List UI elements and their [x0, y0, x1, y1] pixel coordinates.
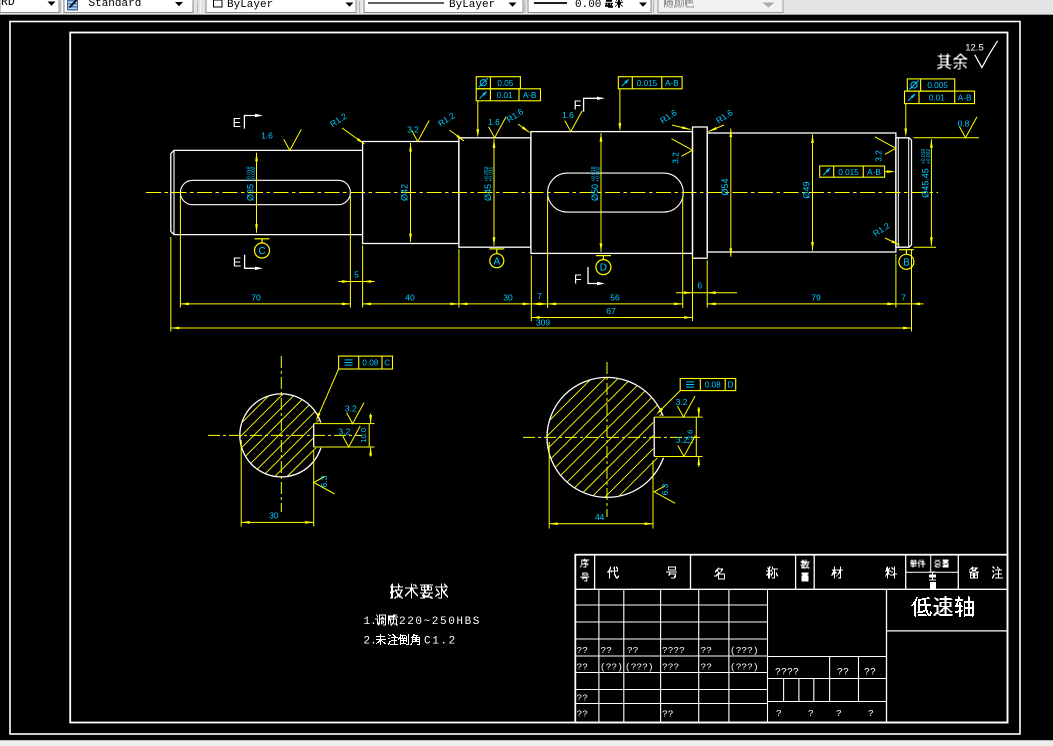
dim extension line	[895, 254, 897, 308]
dim 7 keyway offset	[531, 303, 547, 305]
dim extension line	[170, 237, 172, 332]
svg-text:0.01: 0.01	[929, 94, 945, 103]
svg-text:3.2: 3.2	[676, 397, 688, 407]
svg-text:56: 56	[610, 293, 620, 303]
svg-text:3.2: 3.2	[874, 150, 884, 162]
tolerance frame runout 0.01 A-B right	[905, 91, 975, 104]
title block border	[575, 555, 1007, 723]
svg-text:D: D	[728, 381, 734, 390]
svg-text:+0.002: +0.002	[926, 149, 932, 165]
surface 3.2 on collar face	[672, 139, 693, 157]
dim Ø50	[600, 133, 602, 252]
shaft section S5	[693, 127, 708, 258]
svg-text:0.8: 0.8	[958, 118, 970, 128]
title block revision grid	[575, 604, 767, 606]
svg-text:??: ??	[577, 662, 588, 673]
svg-text:B: B	[903, 257, 910, 268]
toolbar separator	[359, 1, 361, 13]
section F-F surface 3.2 bottom	[678, 436, 696, 457]
section F-F dim 44	[549, 523, 653, 525]
svg-text:C: C	[384, 359, 390, 368]
svg-text:+0.011: +0.011	[489, 166, 495, 181]
status strip	[0, 740, 1053, 746]
dim 309 overall	[171, 327, 912, 329]
shaft section S4	[531, 132, 693, 254]
dim 70	[180, 303, 350, 305]
svg-text:67: 67	[606, 306, 616, 316]
title block name divider	[887, 630, 1008, 632]
section E-E keyway chord	[313, 424, 315, 447]
dim 6 collar	[676, 292, 737, 294]
section E-E surface 6.3	[314, 477, 335, 495]
svg-text:????: ????	[662, 645, 685, 656]
svg-text:6.3: 6.3	[319, 475, 329, 487]
datum B	[899, 249, 914, 251]
svg-text:??: ??	[577, 645, 588, 656]
svg-text:3.2: 3.2	[345, 404, 357, 414]
section E-E circle with hatch	[242, 396, 269, 423]
dim extension line	[911, 249, 913, 331]
toolbar separator	[197, 1, 199, 13]
svg-text:??: ??	[577, 693, 588, 704]
svg-text:A-B: A-B	[867, 168, 881, 177]
toolbar combo layer control	[0, 0, 59, 13]
section E-E dim 30	[241, 521, 314, 523]
svg-text:0.08: 0.08	[705, 381, 721, 390]
dim extension line	[179, 196, 181, 308]
title block header text	[580, 559, 589, 568]
part name 低速轴	[911, 597, 932, 617]
dim extension line	[362, 246, 364, 308]
svg-text:6: 6	[697, 281, 702, 291]
section F-F centerline vertical	[606, 362, 608, 517]
svg-text:A-B: A-B	[523, 91, 537, 100]
shaft section S1 Ø35	[171, 150, 363, 234]
dim 30	[459, 303, 531, 305]
svg-text:??: ??	[837, 668, 849, 679]
dim extension line	[530, 255, 532, 321]
datum A	[489, 248, 504, 250]
section F-F circle with hatch	[549, 380, 590, 421]
svg-text:C: C	[258, 246, 265, 257]
svg-text:(???): (???)	[625, 662, 654, 673]
svg-text:6.3: 6.3	[660, 483, 670, 495]
dim extension line	[349, 196, 351, 308]
shaft centerline	[146, 192, 938, 194]
tolerance frame symmetry 0.08 C	[339, 356, 393, 369]
svg-text:D: D	[600, 263, 607, 274]
svg-text:3.2: 3.2	[407, 125, 419, 135]
svg-text:Ø45: Ø45	[483, 184, 493, 201]
section F-F surface 3.2 top	[678, 396, 696, 417]
svg-text:40: 40	[405, 293, 415, 303]
svg-text:7: 7	[537, 291, 542, 301]
svg-text:???: ???	[662, 662, 679, 673]
svg-text:RD: RD	[1, 0, 15, 9]
toolbar combo text style	[64, 0, 193, 13]
svg-text:?: ?	[868, 708, 874, 719]
section F-F keyway outline	[654, 416, 696, 418]
svg-text:ByLayer: ByLayer	[227, 0, 273, 11]
dim extension line	[547, 196, 549, 308]
dim Ø35	[256, 153, 258, 233]
svg-text:??: ??	[701, 645, 712, 656]
dim 5	[338, 281, 374, 283]
section E-E key width dim	[370, 414, 372, 424]
svg-text:0.08: 0.08	[362, 359, 378, 368]
svg-text:309: 309	[536, 318, 550, 328]
svg-text:F: F	[574, 273, 582, 287]
svg-text:Ø42: Ø42	[400, 184, 410, 201]
svg-text:12.5: 12.5	[965, 43, 984, 54]
toolbar combo lineweight control	[528, 0, 651, 13]
svg-text:3.2: 3.2	[671, 152, 681, 164]
svg-text:0.01: 0.01	[497, 91, 513, 100]
svg-text:70: 70	[251, 293, 261, 303]
svg-text:Ø49: Ø49	[802, 181, 812, 198]
svg-text:0.015: 0.015	[838, 168, 859, 177]
svg-text:Standard: Standard	[89, 0, 142, 10]
svg-text:10.0: 10.0	[359, 428, 368, 443]
svg-text:30: 30	[503, 293, 513, 303]
dim Ø45	[493, 139, 495, 245]
svg-text:(???): (???)	[730, 662, 759, 673]
svg-text:0.015: 0.015	[637, 79, 658, 88]
toolbar combo linetype control	[364, 0, 523, 13]
svg-text:44: 44	[595, 512, 605, 522]
tolerance frame symmetry 0.08 D	[680, 379, 736, 391]
svg-text:??: ??	[627, 645, 638, 656]
dim Ø42	[410, 143, 412, 242]
svg-text:0.00: 0.00	[575, 0, 601, 11]
svg-text:?: ?	[836, 708, 842, 719]
section F-F keyway chord	[653, 417, 655, 456]
shaft section S6	[707, 133, 896, 252]
svg-text:+0.002: +0.002	[251, 166, 257, 182]
svg-text:??: ??	[864, 668, 876, 679]
shaft section S7 right end Ø45	[896, 138, 912, 247]
svg-text:220~250HBS: 220~250HBS	[399, 616, 481, 628]
section E-E centerline horizontal	[208, 434, 362, 436]
surface 0.8 right end	[960, 117, 978, 138]
svg-text:(??): (??)	[600, 662, 623, 673]
svg-text:A-B: A-B	[958, 94, 972, 103]
surface 3.2 on S7 face	[875, 137, 896, 155]
svg-text:F: F	[574, 99, 582, 113]
svg-text:1.6: 1.6	[261, 130, 273, 140]
svg-text:?: ?	[808, 708, 814, 719]
dim extension line	[682, 196, 684, 308]
svg-text:79: 79	[811, 293, 821, 303]
svg-text:C1.2: C1.2	[424, 636, 457, 648]
tolerance frame runout 0.015 A-B top	[618, 77, 682, 89]
section E-E ext lines	[240, 440, 242, 527]
svg-text:??: ??	[662, 709, 673, 720]
tolerance frame runout 0.01 A-B left	[476, 89, 540, 101]
svg-text:2.: 2.	[364, 636, 377, 648]
keyway slot S4	[548, 173, 684, 212]
svg-text:????: ????	[775, 668, 799, 679]
toolbar combo plot style (disabled)	[658, 0, 783, 13]
toolbar face	[0, 0, 1053, 16]
tolerance frame cylindricity 0.05	[476, 77, 520, 89]
section F-F centerline horizontal	[523, 436, 700, 438]
title block header grid	[575, 588, 1007, 590]
svg-text:Ø45.45: Ø45.45	[920, 168, 930, 198]
keyway slot S1	[180, 180, 350, 204]
section E-E keyway outline	[314, 423, 370, 425]
surface 1.6 on S1	[284, 129, 302, 150]
surface 3.2 on S2	[412, 121, 430, 142]
svg-text:1.6: 1.6	[562, 110, 574, 120]
datum C	[255, 238, 270, 240]
tech requirements title	[390, 584, 448, 599]
svg-text:??: ??	[701, 662, 712, 673]
svg-text:0.005: 0.005	[927, 81, 948, 90]
svg-text:ByLayer: ByLayer	[449, 0, 495, 11]
svg-text:Ø54: Ø54	[720, 178, 730, 195]
svg-text:Ø50: Ø50	[590, 184, 600, 201]
shaft section S2	[363, 142, 459, 244]
svg-text:5: 5	[354, 270, 359, 280]
svg-text:+0.002: +0.002	[596, 166, 602, 182]
dim 79	[707, 303, 896, 305]
section F-F key width dim	[698, 407, 700, 417]
toolbar separator	[653, 1, 655, 13]
general roughness note 12.5	[938, 54, 968, 70]
datum D	[596, 255, 611, 257]
svg-text:7: 7	[901, 293, 906, 303]
toolbar separator	[524, 1, 526, 13]
svg-text:?: ?	[776, 708, 782, 719]
svg-text:3.2: 3.2	[676, 435, 688, 445]
svg-text:??: ??	[577, 709, 588, 720]
svg-text:E: E	[233, 256, 241, 270]
dim 40	[363, 303, 459, 305]
surface 1.6 on S4	[565, 111, 583, 132]
svg-text:1.6: 1.6	[488, 117, 500, 127]
svg-text:??: ??	[601, 645, 612, 656]
dim 7 right end	[884, 303, 924, 305]
svg-text:1.: 1.	[364, 616, 377, 628]
section F-F ext lines	[548, 442, 550, 529]
title block middle grid	[768, 656, 887, 658]
section F-F surface 6.3	[654, 486, 675, 504]
tolerance frame cylindricity 0.005	[907, 79, 954, 91]
dim Ø49	[812, 135, 814, 251]
svg-text:0.05: 0.05	[497, 79, 513, 88]
svg-text:E: E	[233, 116, 241, 130]
svg-text:30: 30	[269, 511, 279, 521]
surface 1.6 on S3	[489, 117, 507, 138]
dim extension line	[692, 256, 694, 321]
dim 67	[531, 317, 692, 319]
svg-text:Ø35: Ø35	[246, 184, 256, 201]
dim extension line	[706, 260, 708, 307]
dim extension line	[458, 249, 460, 307]
svg-text:A: A	[493, 256, 500, 267]
shaft section S3	[459, 138, 531, 247]
dim Ø54	[730, 129, 732, 257]
section E-E centerline vertical	[280, 356, 282, 512]
svg-text:(???): (???)	[730, 645, 759, 656]
toolbar combo color control	[206, 0, 356, 13]
dim 56	[548, 303, 683, 305]
section E-E surface 3.2 top	[347, 403, 365, 424]
section E-E surface 3.2 bottom	[343, 426, 361, 447]
svg-text:3.2: 3.2	[338, 427, 350, 437]
dim Ø45.45 right end	[930, 139, 932, 245]
toolbar separator	[60, 1, 62, 13]
svg-text:A-B: A-B	[665, 79, 679, 88]
tolerance frame runout 0.015 A-B mid	[820, 166, 885, 177]
